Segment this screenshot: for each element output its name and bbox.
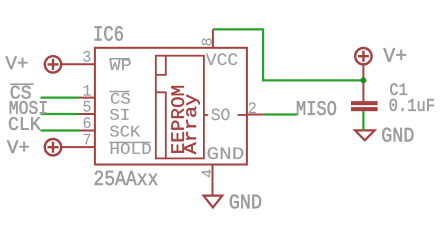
label V+ right bbox=[383, 48, 406, 62]
pin 5 stub bbox=[78, 113, 95, 115]
supply symbol V+ right bbox=[355, 48, 371, 64]
capacitor C1 plates bbox=[351, 101, 378, 111]
pin name SO bbox=[211, 109, 229, 121]
pin 3 wire bbox=[61, 63, 95, 65]
pin name VCC bbox=[206, 53, 238, 65]
wire net CLK bbox=[41, 129, 79, 131]
pin 2 stub bbox=[247, 114, 264, 116]
pin 7 wire bbox=[61, 146, 95, 148]
pin number 4 bbox=[202, 170, 213, 177]
pin name HOLD bbox=[111, 143, 151, 154]
text Array bbox=[184, 94, 200, 154]
supply symbol V+ bottom-left bbox=[45, 139, 61, 155]
pin name SI bbox=[110, 109, 129, 120]
pin number 3 bbox=[83, 51, 90, 62]
overline for pin name WP bbox=[110, 58, 130, 60]
pin number 5 bbox=[83, 101, 90, 112]
wire net CS bbox=[41, 96, 79, 98]
pin number 6 bbox=[84, 117, 91, 128]
label GND right bbox=[382, 128, 413, 142]
pin 8 stub bbox=[212, 29, 214, 47]
label 0.1uF bbox=[390, 99, 434, 111]
pin name GND bbox=[208, 147, 244, 159]
partition line bbox=[156, 92, 166, 158]
pin name CS bbox=[111, 93, 130, 104]
pin name SCK bbox=[110, 126, 140, 137]
pin number 8 bbox=[202, 38, 212, 45]
wire net V+ from VCC pin bbox=[213, 29, 364, 80]
ground symbol bottom bbox=[204, 196, 223, 208]
pin 6 stub bbox=[78, 130, 95, 132]
label IC6 bbox=[95, 26, 123, 41]
pin number 7 bbox=[84, 134, 91, 145]
text EEPROM bbox=[171, 86, 184, 153]
label V+ top-left bbox=[5, 57, 27, 69]
notch 1 bbox=[156, 56, 166, 75]
label CLK bbox=[9, 117, 41, 130]
label C1 bbox=[390, 83, 407, 95]
ground symbol right bbox=[355, 130, 375, 140]
pin name WP bbox=[109, 59, 130, 70]
label MISO bbox=[297, 101, 336, 115]
label 25AAxx bbox=[95, 171, 158, 186]
inner EEPROM array box bbox=[156, 56, 204, 159]
junction bbox=[360, 77, 366, 83]
label V+ bottom-left bbox=[7, 141, 29, 153]
dash to SO right bbox=[238, 114, 247, 116]
label MOSI bbox=[10, 101, 47, 114]
IC body IC6 bbox=[95, 48, 247, 165]
pin number 2 bbox=[249, 102, 256, 113]
pin 1 stub bbox=[78, 97, 95, 99]
overline for pin name HOLD bbox=[109, 142, 150, 144]
label GND bottom bbox=[230, 195, 261, 209]
overline for pin name CS bbox=[110, 91, 130, 92]
label CS bbox=[11, 86, 31, 99]
wire net MISO bbox=[264, 113, 298, 115]
dash to SO left bbox=[204, 114, 208, 116]
wire capacitor to ground bbox=[362, 111, 364, 131]
overline for label CS bbox=[10, 83, 33, 85]
pin 4 stub bbox=[212, 165, 214, 196]
wire V+ to capacitor bbox=[362, 64, 364, 101]
pin number 1 bbox=[84, 85, 91, 96]
supply symbol V+ top-left bbox=[45, 56, 61, 72]
wire net MOSI bbox=[41, 113, 79, 115]
